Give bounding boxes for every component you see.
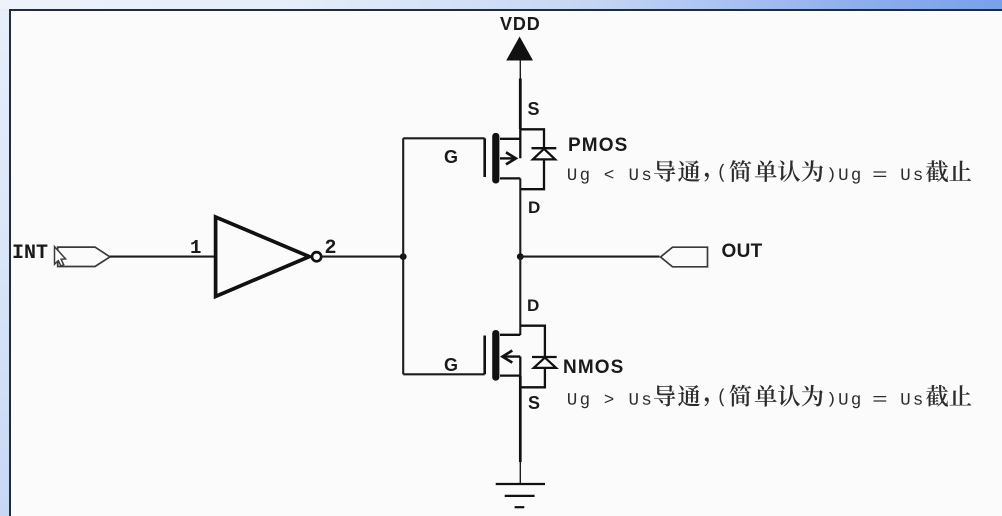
wire NMOS bulk-source stem	[519, 357, 521, 376]
label NMOS	[563, 358, 624, 377]
port connector OUT	[661, 247, 708, 267]
pin label S of PMOS	[528, 100, 540, 118]
annotation text PMOS conduction condition	[568, 160, 971, 184]
net label VDD	[500, 15, 541, 33]
power symbol VDD arrow	[506, 37, 533, 61]
wire PMOS source stem and leads	[500, 129, 520, 158]
wire output node to NMOS drain	[519, 257, 521, 335]
pin label D of PMOS	[528, 199, 540, 216]
wire inverter output to gate bus	[321, 256, 403, 258]
mouse cursor pointer	[55, 247, 66, 266]
wire gate bus to PMOS gate	[403, 137, 485, 139]
slide top edge strip	[0, 0, 1002, 9]
wire PMOS drain to output node	[519, 178, 521, 256]
port label OUT	[722, 242, 763, 261]
wire gate bus to NMOS gate	[403, 373, 485, 375]
body diode of PMOS	[520, 129, 556, 189]
frame border top line	[9, 9, 1002, 11]
node output junction dot	[517, 253, 524, 260]
wire NMOS source to ground	[519, 376, 522, 484]
inverter U1 triangle and bubble	[216, 217, 322, 296]
wire NMOS drain lead	[500, 334, 520, 336]
wire VDD to PMOS source pin	[519, 60, 521, 130]
frame border left line	[9, 9, 11, 516]
transistor Q2 NMOS	[485, 330, 521, 381]
pin label G of NMOS	[444, 356, 458, 374]
body diode of NMOS	[520, 326, 556, 388]
slide left edge strip	[0, 9, 9, 516]
label PMOS	[568, 136, 628, 155]
annotation text NMOS conduction condition	[568, 385, 971, 409]
pin label G of PMOS	[444, 148, 458, 166]
pin number 2	[325, 239, 337, 259]
pin label D of NMOS	[527, 297, 539, 314]
port label INT	[12, 244, 48, 264]
port connector INT	[58, 247, 110, 266]
wire output node to OUT connector	[520, 256, 659, 258]
pin label S of NMOS	[528, 394, 540, 412]
transistor Q1 PMOS	[485, 133, 521, 184]
wire INT to inverter input	[110, 256, 216, 258]
ground symbol	[496, 484, 545, 507]
pin number 1	[190, 239, 201, 258]
node gate bus junction dot	[400, 253, 407, 260]
wire gate bus vertical	[402, 138, 404, 374]
